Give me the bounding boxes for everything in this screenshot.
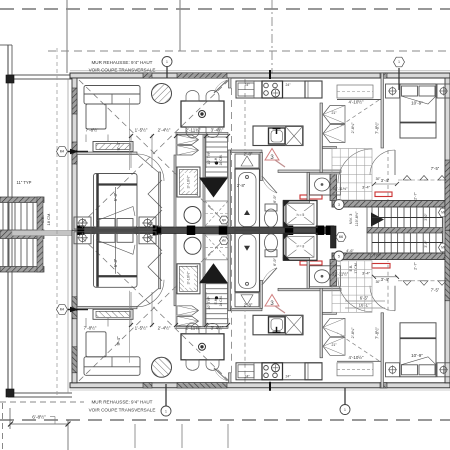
svg-text:E.B.: E.B. <box>40 215 45 223</box>
marker circle 1 bottom left <box>161 406 171 416</box>
wall vanity east <box>307 173 310 202</box>
stove leader tick <box>269 70 271 79</box>
property dashed line top <box>0 8 450 10</box>
svg-text:1: 1 <box>166 60 168 64</box>
svg-text:7’-5”: 7’-5” <box>431 288 440 293</box>
svg-text:16 CM.: 16 CM. <box>219 295 223 306</box>
stove <box>262 81 283 98</box>
svg-text:M4: M4 <box>60 308 65 312</box>
marker circle 1 top <box>162 57 172 67</box>
svg-text:2’-11¾”: 2’-11¾” <box>186 128 201 133</box>
svg-text:16’-1”: 16’-1” <box>359 303 370 308</box>
exterior stair flight1 treads <box>3 203 33 231</box>
red revision triangle kitchen bottom <box>265 295 279 307</box>
bedroom door arc <box>137 154 164 181</box>
svg-text:h = 5: h = 5 <box>297 213 305 217</box>
wall hall west <box>320 103 323 173</box>
shaft west wall upper <box>330 174 337 201</box>
island counter <box>253 126 303 146</box>
svg-text:24”: 24” <box>245 83 250 87</box>
svg-text:7’-8½”: 7’-8½” <box>86 127 99 133</box>
svg-text:3’-0”: 3’-0” <box>424 213 428 221</box>
island dishwasher X <box>286 127 303 146</box>
party wall studs <box>76 226 84 235</box>
marker M6 left <box>336 233 346 242</box>
red revision triangle kitchen top <box>265 149 279 161</box>
marker hex M4 top <box>57 147 68 157</box>
balcony east edge <box>67 79 69 393</box>
linen closet hatched <box>177 167 200 197</box>
svg-text:2’-8¼”: 2’-8¼” <box>351 122 355 133</box>
svg-text:5: 5 <box>338 254 340 258</box>
west wall door segment <box>72 142 77 164</box>
window dim triangles <box>403 176 411 181</box>
svg-text:9’-4”: 9’-4” <box>116 336 121 346</box>
vertical extension below x135 <box>134 424 136 448</box>
svg-text:6’-8½”: 6’-8½” <box>32 414 46 421</box>
svg-text:30°: 30° <box>376 280 382 284</box>
red highlight box shaft top <box>375 192 392 197</box>
svg-text:24”: 24” <box>286 375 291 379</box>
svg-text:E.B.: E.B. <box>349 265 353 272</box>
svg-text:41’-11½”: 41’-11½” <box>333 187 348 191</box>
shaft west wall middle dark <box>331 226 337 248</box>
round table hatched <box>152 84 172 104</box>
wall bath north <box>278 170 341 173</box>
dining table <box>181 101 224 127</box>
svg-text:21”: 21” <box>332 111 337 115</box>
shaft handrail lower <box>372 242 443 244</box>
svg-text:3: 3 <box>338 203 340 207</box>
svg-text:MUR REHAUSSE: 9’4” HAUT: MUR REHAUSSE: 9’4” HAUT <box>91 60 152 65</box>
ceiling break dashed vertical <box>244 79 246 150</box>
powder basin circle <box>184 207 201 224</box>
wall shower west <box>283 203 286 227</box>
red highlight box hall bottom <box>300 261 322 265</box>
balcony corner post bottom <box>6 389 14 397</box>
marker circle 1 bottom right <box>340 405 350 415</box>
shaft treads upper flight <box>372 207 442 228</box>
pantry pentagon upper <box>323 106 345 124</box>
kitchen door stub <box>229 78 232 88</box>
shower <box>284 201 318 228</box>
centerline stove dash-dot <box>271 0 273 79</box>
svg-text:24”: 24” <box>245 375 250 379</box>
marker M6 right upper <box>439 208 449 217</box>
svg-text:18 CM.: 18 CM. <box>46 213 51 226</box>
hall ceiling break dashed <box>387 150 389 200</box>
exterior stair top band <box>0 197 44 203</box>
svg-text:1: 1 <box>398 60 400 64</box>
north wall window hatch segment <box>177 73 227 78</box>
svg-text:3’-4”: 3’-4” <box>362 271 371 276</box>
bed 2 <box>400 84 436 138</box>
hall door arc <box>338 149 372 183</box>
svg-text:2’-8”: 2’-8” <box>237 183 246 188</box>
grid line vertical left <box>66 0 68 73</box>
svg-text:M6: M6 <box>339 235 344 239</box>
svg-text:3’-4”: 3’-4” <box>381 178 390 183</box>
pantry pentagon lower <box>323 125 345 143</box>
kitchen sink <box>238 83 254 96</box>
bed 1 <box>94 174 138 228</box>
svg-text:MUR REHAUSSE: 9’4” HAUT: MUR REHAUSSE: 9’4” HAUT <box>91 400 152 405</box>
wall hall north stub <box>323 147 337 149</box>
west exterior wall <box>72 78 77 231</box>
grid line vertical mid <box>179 0 181 51</box>
dining chairs <box>186 91 199 102</box>
wall bedroom north <box>77 152 137 155</box>
nightstand 2 right <box>437 84 450 98</box>
svg-text:3’-4”: 3’-4” <box>381 277 390 282</box>
property dashed line bottom <box>0 419 450 421</box>
svg-text:2’-11¾”: 2’-11¾” <box>186 326 201 331</box>
red highlight box hall top <box>300 195 322 199</box>
exterior stair east wall <box>37 197 43 272</box>
shaft landing rail <box>367 228 443 233</box>
svg-text:4’-10½”: 4’-10½” <box>349 355 364 360</box>
north wall hatch tick a <box>143 73 152 78</box>
setback dashed line upper <box>48 50 450 52</box>
sofa <box>84 86 140 105</box>
east exterior wall <box>445 78 450 231</box>
nightstand left <box>74 217 91 229</box>
shaft treads lower flight <box>372 233 442 253</box>
window dim dashed right <box>398 179 450 181</box>
marker circle 5 shaft <box>334 251 344 261</box>
north wall trim line <box>70 70 450 72</box>
svg-text:2’-8”: 2’-8” <box>244 152 253 157</box>
svg-text:2’-4½”: 2’-4½” <box>158 127 171 133</box>
svg-text:6’-5”: 6’-5” <box>360 296 369 301</box>
svg-text:7’-5”: 7’-5” <box>431 166 440 171</box>
dashed line balcony x57 <box>56 48 58 395</box>
wall stair east <box>228 150 231 227</box>
nightstand 2 left <box>386 84 400 98</box>
dim line 3-4 <box>374 183 397 185</box>
shaft handrail upper <box>372 217 443 219</box>
shaft west wall lower <box>330 260 337 287</box>
dim extension 9-4 <box>129 98 131 170</box>
kitchen door leaf <box>214 80 228 93</box>
marker M6 right lower <box>439 243 449 252</box>
setback dashed stub bottom-left <box>0 401 84 403</box>
dimension 6-8.5 bottom left <box>9 408 11 429</box>
exterior stair flight2 treads <box>3 239 33 267</box>
dashed vertical left edge bottom <box>2 403 4 450</box>
svg-text:NIV. 3: NIV. 3 <box>348 213 353 225</box>
svg-text:1’-5½”: 1’-5½” <box>135 127 148 133</box>
svg-text:10’-9”: 10’-9” <box>411 101 423 106</box>
bath door leaf <box>262 176 277 193</box>
svg-text:16 CM.: 16 CM. <box>219 154 223 165</box>
red highlight box shaft bottom <box>372 264 390 269</box>
fridge <box>305 81 322 98</box>
chevron closet door upper <box>148 180 162 208</box>
wall cabinets north <box>176 133 228 135</box>
vertical extension below x182 <box>181 424 183 448</box>
bed 1 pillows <box>99 219 115 229</box>
svg-text:7’-8½”: 7’-8½” <box>375 326 380 338</box>
svg-text:10’-9”: 10’-9” <box>411 353 423 358</box>
svg-text:3’-4”: 3’-4” <box>362 185 371 190</box>
svg-text:2’-4½”: 2’-4½” <box>158 325 171 331</box>
exterior stair bottom band <box>0 267 44 273</box>
ceiling cross dashed B <box>79 80 229 226</box>
svg-text:3’-0”: 3’-0” <box>424 240 428 248</box>
svg-text:1: 1 <box>165 409 167 413</box>
stair shaft north wall hatched <box>332 201 450 208</box>
island sink unit <box>269 128 286 144</box>
closet dashed shelf <box>337 85 373 98</box>
bedroom2 door arc <box>370 150 395 175</box>
svg-text:11” TYP: 11” TYP <box>17 180 32 185</box>
svg-text:9’-4”: 9’-4” <box>116 141 121 151</box>
svg-text:2’-7”: 2’-7” <box>414 261 418 269</box>
bottom unit mirrored <box>70 230 450 391</box>
appliance dashed box <box>205 201 228 226</box>
svg-text:7’-8½”: 7’-8½” <box>84 325 97 331</box>
chevron closet door lower <box>148 210 162 227</box>
wall bedroom2 west <box>381 73 384 148</box>
svg-text:2’-8”: 2’-8” <box>244 303 253 308</box>
marker hex M6 powder <box>220 216 229 224</box>
vanity sink right <box>310 174 341 195</box>
bed 2 pillows <box>402 86 418 96</box>
dining bowl <box>199 111 206 118</box>
svg-text:10” TYP: 10” TYP <box>207 151 211 165</box>
ceiling break dashed vertical kitchen <box>231 88 233 226</box>
shaft boundary lines <box>366 207 368 253</box>
svg-text:5’-3”: 5’-3” <box>113 192 118 201</box>
nightstand right <box>139 217 156 229</box>
exterior stair middle band <box>0 230 44 239</box>
wall bath west <box>260 153 263 181</box>
closet dashed diagonal bedroom2 <box>337 100 379 128</box>
dresser hatched <box>93 142 133 152</box>
marker circle 3 shaft <box>334 200 344 210</box>
balcony south edge <box>8 392 72 394</box>
toilet <box>265 209 278 227</box>
svg-text:1’-5½”: 1’-5½” <box>135 325 148 331</box>
svg-text:30°: 30° <box>376 177 382 181</box>
shaft direction arrow <box>371 213 384 227</box>
interior stair <box>206 137 228 177</box>
interior stair arrow <box>199 178 228 198</box>
balcony west wall <box>7 45 9 397</box>
wall stair west <box>203 134 205 227</box>
vanity over tub <box>235 154 259 168</box>
vertical extension below x228 <box>227 424 229 448</box>
wall shower north <box>283 201 310 204</box>
wall bedroom east <box>159 172 161 227</box>
svg-text:17 CM.: 17 CM. <box>354 262 358 274</box>
svg-text:1’ TYP: 1’ TYP <box>369 253 381 258</box>
kitchen counter <box>236 81 322 98</box>
bathtub <box>235 169 260 230</box>
cabinet pentagon lower <box>177 146 199 155</box>
stair shaft south wall hatched <box>332 253 450 260</box>
marker hex M4 bottom <box>57 305 68 315</box>
north wall hatch tick b <box>380 73 387 78</box>
svg-text:VOIR COUPE TRANSVERSALE: VOIR COUPE TRANSVERSALE <box>89 408 156 413</box>
svg-text:E.H.: E.H. <box>214 157 218 164</box>
exterior north wall <box>70 73 450 78</box>
wall tub alcove north <box>231 150 263 153</box>
wall closet west <box>174 155 176 227</box>
svg-text:5’-3”: 5’-3” <box>113 258 118 267</box>
svg-text:3’-4½”: 3’-4½” <box>211 127 224 133</box>
east wall hatched segment <box>445 160 450 231</box>
svg-text:10” TYP: 10” TYP <box>207 296 211 310</box>
svg-text:1: 1 <box>344 408 346 412</box>
svg-text:M4: M4 <box>60 150 65 154</box>
svg-text:6’-9”: 6’-9” <box>272 194 277 203</box>
west wall window segment <box>72 88 77 114</box>
svg-text:119’-8½”: 119’-8½” <box>355 211 359 226</box>
top unit geometry <box>70 70 450 231</box>
svg-text:3’-10½”: 3’-10½” <box>187 271 191 285</box>
svg-text:21”: 21” <box>332 343 337 347</box>
party wall center <box>75 227 332 234</box>
balcony party band <box>12 231 75 236</box>
svg-text:7’-8½”: 7’-8½” <box>375 121 380 133</box>
hall tile floor <box>332 149 372 201</box>
svg-text:4’-10½”: 4’-10½” <box>349 100 364 105</box>
ceiling cross dashed A <box>79 80 229 226</box>
svg-text:3’-4½”: 3’-4½” <box>211 325 224 331</box>
svg-text:6’-9”: 6’-9” <box>272 257 277 266</box>
svg-text:3’-10½”: 3’-10½” <box>187 175 191 189</box>
marker hex 1 top right <box>394 57 405 67</box>
svg-text:4’-6”: 4’-6” <box>346 249 354 253</box>
balcony corner post top <box>6 75 14 83</box>
svg-text:VOIR COUPE TRANSVERSALE: VOIR COUPE TRANSVERSALE <box>89 68 156 73</box>
svg-text:2’-7”: 2’-7” <box>414 191 418 199</box>
svg-text:2’-8¼”: 2’-8¼” <box>351 327 355 338</box>
cabinet pentagon upper <box>177 135 199 144</box>
balcony north edge <box>8 74 72 76</box>
svg-text:24”: 24” <box>286 83 291 87</box>
svg-text:E.H.: E.H. <box>214 298 218 305</box>
